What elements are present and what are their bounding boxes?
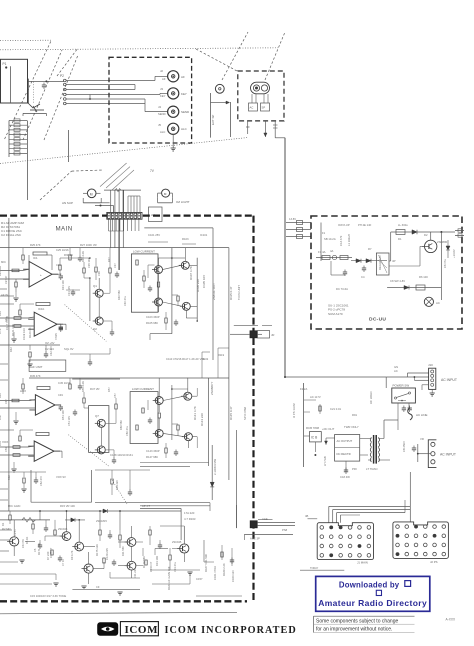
wire boardfeed drops	[329, 506, 411, 522]
wire key jack leads	[252, 94, 268, 103]
transistor Q20	[422, 232, 437, 253]
svg-text:+13.8V: +13.8V	[452, 249, 456, 258]
label dcuu feeds	[289, 217, 296, 221]
resistor R41 feedback	[37, 387, 50, 390]
svg-text:R29 10K: R29 10K	[0, 266, 2, 276]
wire q16	[88, 552, 90, 584]
svg-text:R121 10K: R121 10K	[11, 324, 15, 336]
wire y228	[144, 228, 213, 240]
wire rail low	[0, 510, 181, 512]
jack J2 PHONE	[168, 71, 185, 82]
wire dotted link1	[65, 305, 107, 342]
wire rail top	[0, 247, 229, 249]
wire bus a	[110, 219, 112, 248]
wire q9c	[158, 378, 160, 397]
capacitor C26	[78, 248, 82, 262]
wire base lead	[28, 79, 64, 104]
svg-text:R47 VR: R47 VR	[90, 387, 100, 391]
wire harness diag 1	[40, 171, 72, 200]
wire boardfeed 3	[337, 512, 405, 514]
svg-text:C11 225: C11 225	[133, 568, 137, 578]
cable S-curve	[408, 408, 428, 420]
wire bus e	[171, 248, 173, 334]
svg-text:PH 4E 14F: PH 4E 14F	[358, 223, 372, 227]
wire q1c	[98, 278, 100, 289]
svg-text:C53: C53	[4, 447, 8, 452]
svg-text:Downloaded by: Downloaded by	[339, 581, 400, 590]
svg-text:D102: D102	[202, 357, 209, 361]
wire y570	[300, 567, 344, 570]
wire botmid	[196, 540, 242, 596]
connector J1 block outline	[1, 59, 28, 103]
wire in7	[0, 446, 34, 449]
transformer T1	[366, 435, 384, 471]
label meter M1	[62, 201, 73, 205]
svg-text:LT TRAN: LT TRAN	[366, 467, 377, 471]
label low current upper	[133, 249, 155, 253]
wire strip feeds 2	[128, 196, 140, 213]
svg-text:PS8: PS8	[282, 528, 288, 532]
wire ac drop	[398, 403, 409, 430]
svg-text:17A 220: 17A 220	[184, 511, 195, 515]
svg-text:AF 4.7: AF 4.7	[142, 504, 150, 508]
wire dcuu low rail	[387, 285, 441, 290]
svg-text:Q2: Q2	[93, 327, 97, 331]
label y352	[9, 346, 74, 356]
svg-text:Q7: Q7	[95, 414, 99, 418]
label y480	[7, 475, 66, 486]
svg-text:RY: RY	[368, 247, 372, 251]
svg-text:C21 0.01: C21 0.01	[330, 407, 342, 411]
wire q10c	[187, 378, 189, 393]
label dcuu parts	[328, 304, 349, 316]
svg-text:KEY: KEY	[160, 94, 166, 98]
svg-text:C51 10V: C51 10V	[67, 416, 71, 426]
shield boundary bottom aux	[0, 612, 237, 614]
wire in1	[0, 269, 29, 272]
wire y534	[244, 534, 293, 540]
wire y511 verts	[39, 510, 121, 530]
box strip right	[149, 207, 163, 222]
label strip under	[148, 233, 208, 241]
wire y345	[0, 345, 60, 367]
label sheet number	[446, 618, 456, 622]
wire y570b	[150, 569, 200, 571]
wire bus h	[228, 248, 230, 480]
svg-text:AC: AC	[436, 301, 440, 305]
resistor R2	[249, 103, 258, 111]
wire y518	[305, 514, 317, 519]
wire q78 extra	[84, 408, 116, 464]
wire dcuu feed 2	[286, 228, 311, 232]
resistor R69	[103, 558, 105, 563]
svg-text:2SC945: 2SC945	[58, 527, 68, 531]
resistor R64	[99, 525, 101, 541]
wire bus i	[208, 378, 210, 466]
label low current lower	[132, 387, 154, 391]
capacitor C67	[112, 560, 116, 567]
svg-text:MIC: MIC	[1, 260, 6, 264]
resistor R52	[136, 425, 138, 430]
resistor R42 feedback	[36, 433, 49, 436]
label q12	[93, 284, 97, 331]
svg-text:C163 104: C163 104	[231, 570, 235, 582]
svg-text:R171 10K: R171 10K	[37, 543, 41, 555]
svg-text:P1: P1	[3, 62, 7, 66]
ground g1	[81, 586, 86, 589]
wire q12	[98, 297, 100, 317]
svg-text:AC: AC	[394, 369, 398, 373]
label vbus	[212, 283, 233, 300]
svg-text:ALC: ALC	[160, 130, 165, 134]
svg-text:J3: J3	[160, 87, 163, 91]
svg-text:C105 10V: C105 10V	[202, 275, 206, 288]
wire ch1 gnd	[13, 292, 18, 301]
shield boundary MAIN top	[0, 214, 254, 216]
svg-text:2SB AF OUT: 2SB AF OUT	[212, 283, 216, 300]
wire in6	[0, 407, 35, 409]
shield box jack panel	[109, 57, 192, 143]
switch S1 POWER	[392, 384, 416, 404]
svg-text:POWER SW: POWER SW	[393, 384, 410, 388]
svg-text:D1: D1	[398, 237, 402, 241]
wire j10 gnd	[422, 385, 435, 396]
svg-text:R49: R49	[0, 393, 2, 398]
diode D3	[210, 445, 214, 500]
wire bus j	[236, 430, 238, 528]
svg-text:M: M	[90, 192, 93, 196]
wire vline236	[236, 505, 238, 528]
wire y462	[140, 463, 209, 467]
svg-text:LOW CURRENT: LOW CURRENT	[133, 249, 155, 253]
svg-text:R7 220: R7 220	[46, 551, 50, 560]
ground g4	[187, 572, 192, 575]
svg-text:4A: 4A	[330, 249, 334, 253]
label vbus2	[210, 382, 233, 420]
wire ch2 gnd	[11, 332, 16, 342]
svg-text:C2 FINAL 2SC: C2 FINAL 2SC	[1, 233, 22, 237]
wire strip topL	[95, 205, 114, 213]
rectifier box	[335, 435, 360, 462]
label botrow1	[2, 527, 53, 558]
svg-text:TO PA UNIT: TO PA UNIT	[237, 285, 241, 300]
label blockmid	[31, 365, 43, 369]
meter M2	[158, 189, 173, 203]
svg-text:SQL 9V: SQL 9V	[64, 347, 74, 351]
svg-text:R141 4.7K: R141 4.7K	[193, 406, 197, 420]
svg-text:C62 470: C62 470	[39, 476, 43, 486]
wire jack feed 2	[66, 84, 135, 86]
ground g5	[53, 583, 58, 586]
label ch1	[33, 256, 42, 277]
svg-text:MIC GAIN: MIC GAIN	[8, 504, 20, 508]
svg-text:C5: C5	[33, 548, 37, 552]
label speckB	[45, 341, 55, 351]
svg-text:ALC: ALC	[181, 127, 188, 131]
wire dashed pull 1	[196, 49, 238, 72]
wire bus c	[119, 190, 123, 270]
svg-text:C128 100/10 R131: C128 100/10 R131	[110, 453, 133, 457]
label ch1 out	[56, 263, 71, 296]
svg-text:VOX: VOX	[2, 440, 8, 444]
capacitor C31	[148, 286, 152, 293]
wire ch4 gnd	[11, 462, 16, 472]
svg-text:C18 4W: C18 4W	[340, 475, 350, 479]
capacitor C51	[148, 418, 152, 425]
svg-text:R11 560: R11 560	[121, 546, 125, 556]
svg-text:R31 100: R31 100	[61, 280, 65, 290]
wire jack feed 4	[66, 93, 168, 94]
label micol2	[202, 353, 225, 361]
label relay anno	[378, 255, 382, 270]
fuse F1	[316, 250, 352, 260]
wire y502	[95, 503, 210, 511]
svg-text:OZ LIGHT: OZ LIGHT	[176, 200, 190, 204]
svg-text:R33: R33	[0, 311, 2, 316]
svg-text:C157: C157	[196, 577, 203, 581]
wire q13	[13, 520, 15, 556]
svg-text:R42: R42	[9, 347, 13, 352]
transistor Q9	[153, 397, 164, 405]
transistor Q12	[182, 433, 193, 441]
wire bus d	[122, 219, 124, 248]
capacitor C41	[55, 405, 63, 412]
transistor Q19	[177, 544, 189, 553]
wire xlink2	[0, 344, 60, 346]
svg-text:13.8V: 13.8V	[289, 217, 296, 221]
label downloaded by	[339, 581, 411, 590]
wire q4c	[184, 248, 186, 262]
wire dcuu top rail	[391, 230, 455, 235]
svg-text:C40 47u: C40 47u	[123, 296, 127, 306]
wire boardfeed 1	[329, 505, 411, 507]
svg-text:RCB 7808: RCB 7808	[306, 426, 319, 430]
svg-text:2SC945: 2SC945	[172, 540, 182, 544]
svg-text:TWR ONLY: TWR ONLY	[344, 425, 359, 429]
svg-text:AF: AF	[181, 75, 185, 79]
wire power topline	[304, 382, 387, 384]
wire bb2	[25, 536, 104, 569]
wire in4	[0, 325, 34, 328]
svg-text:R40 560: R40 560	[117, 290, 121, 300]
wire from key jack B	[264, 121, 267, 137]
svg-text:DC-UU: DC-UU	[369, 317, 386, 323]
jack J3 KEY	[168, 88, 187, 99]
connector tab lower	[250, 521, 257, 528]
svg-text:C33: C33	[4, 317, 8, 322]
svg-text:IC101: IC101	[200, 233, 208, 237]
svg-text:AF UNIT: AF UNIT	[31, 365, 43, 369]
svg-text:J4: J4	[158, 105, 161, 109]
svg-text:TODAY: TODAY	[310, 567, 319, 570]
svg-text:R147 68K: R147 68K	[146, 455, 158, 459]
label small square	[376, 590, 381, 595]
svg-text:EXT SP: EXT SP	[211, 115, 215, 125]
label meter M2	[176, 200, 190, 204]
transistor Q5	[152, 298, 163, 306]
svg-text:C103 330P: C103 330P	[146, 315, 160, 319]
label q3456	[189, 266, 206, 292]
transistor Q11	[153, 429, 164, 437]
amp block box upper	[131, 254, 158, 312]
note line 1	[316, 618, 398, 624]
ground jack panel	[171, 134, 176, 151]
resistor R67	[169, 548, 171, 570]
svg-text:GN: GN	[394, 365, 398, 369]
capacitor C52b	[174, 450, 178, 457]
label ch3 top	[30, 374, 100, 391]
wire jack feed 6	[66, 99, 168, 112]
wire q910	[163, 396, 184, 437]
wire q19	[160, 526, 184, 562]
label dc input	[441, 378, 457, 382]
jack J5 ALC	[168, 123, 188, 134]
capacitor C32b	[174, 320, 178, 327]
svg-text:VR: VR	[420, 437, 424, 441]
resistor R38	[83, 262, 85, 278]
wire rect leads	[325, 438, 369, 474]
wire bus g	[212, 240, 214, 360]
wire in8	[0, 454, 34, 457]
svg-text:Amateur Radio Directory: Amateur Radio Directory	[318, 598, 427, 608]
transistor Q7	[95, 419, 106, 427]
wire quad1 net2	[172, 258, 198, 322]
wire dashed chassis diagonal 2	[23, 50, 62, 140]
wire ext-sp left	[211, 93, 231, 138]
capacitor C46	[78, 378, 82, 390]
svg-text:AC INPUT: AC INPUT	[441, 378, 457, 382]
wire bus left	[8, 218, 10, 511]
svg-text:R1: R1	[1, 522, 5, 526]
svg-text:VOX 9V: VOX 9V	[56, 475, 66, 479]
svg-text:OW 8-UP: OW 8-UP	[338, 223, 350, 227]
resistor R70	[145, 560, 147, 565]
label ch3 out	[58, 393, 71, 426]
label ch2	[38, 307, 45, 311]
wire dotted mid guide	[0, 138, 248, 164]
svg-text:R55 2.2K: R55 2.2K	[81, 381, 85, 392]
resistor R3	[261, 103, 270, 111]
label bden2	[70, 546, 177, 589]
wire quad2 net2	[172, 388, 197, 448]
label midrow2	[81, 381, 117, 398]
shield boundary MAIN right	[252, 216, 254, 601]
transistor Q1	[93, 289, 104, 297]
wire dashed chassis diagonal 1	[5, 41, 51, 139]
svg-text:C149 225: C149 225	[105, 548, 109, 560]
wire q17	[131, 526, 133, 578]
svg-text:R45 47K: R45 47K	[30, 374, 41, 378]
svg-text:SB 10-2A: SB 10-2A	[324, 237, 336, 241]
jack J6 EXT-SP	[215, 84, 224, 93]
svg-text:C27 47: C27 47	[4, 275, 8, 284]
resistor R62	[32, 520, 34, 534]
wire in5	[0, 399, 35, 402]
svg-text:C9: C9	[96, 585, 100, 589]
transistor Q17	[125, 538, 136, 547]
wire dcuu mid rail	[351, 259, 387, 263]
wire mid gap row	[59, 257, 91, 274]
label qcol	[117, 290, 127, 306]
svg-text:C13 47u: C13 47u	[173, 562, 177, 572]
transistor Q10	[181, 392, 192, 400]
label quad2 bot	[146, 449, 160, 459]
label hold	[369, 365, 398, 404]
resistor R46	[22, 378, 24, 394]
svg-text:R2 MIC: R2 MIC	[2, 527, 11, 531]
svg-text:C143 330P: C143 330P	[146, 449, 160, 453]
svg-text:R91: R91	[352, 413, 357, 417]
svg-text:R35 2.2K: R35 2.2K	[81, 251, 85, 262]
svg-text:J2 PS: J2 PS	[430, 560, 438, 564]
capacitor C58	[73, 410, 77, 417]
svg-text:AC: AC	[250, 106, 254, 110]
wire dcuu feed 1	[286, 221, 311, 225]
transistor Q3	[152, 266, 163, 274]
wire dotted link2	[68, 435, 109, 467]
resistor R58	[83, 392, 85, 408]
wire mid verts	[202, 348, 229, 378]
capacitor C71	[402, 406, 412, 413]
label bden4	[58, 519, 182, 544]
resistor R66	[149, 526, 151, 545]
transistor Q8	[95, 446, 106, 454]
resistor R53b	[165, 443, 167, 458]
wire fuse drop	[331, 261, 347, 276]
wire y519b	[258, 518, 273, 520]
svg-text:C110 470/16 R117 1.2K AF VOL: C110 470/16 R117 1.2K AF VOL	[166, 357, 206, 361]
svg-text:R36 1K: R36 1K	[64, 253, 73, 257]
svg-text:PRI: PRI	[352, 467, 357, 471]
resistor R28	[69, 248, 71, 260]
svg-text:AC INPUT: AC INPUT	[440, 453, 456, 457]
svg-text:C101 25V: C101 25V	[148, 233, 160, 237]
svg-text:L1 100uH: L1 100uH	[347, 234, 351, 246]
wire power left	[285, 377, 304, 467]
label botrow2	[95, 544, 153, 572]
svg-text:U PS 13.8V: U PS 13.8V	[292, 403, 296, 418]
logo ICOM INCORPORATED	[165, 625, 297, 636]
svg-text:R62: R62	[7, 475, 11, 480]
label ch3 left	[0, 393, 8, 420]
wire bus to power	[275, 138, 285, 377]
label DC-UU	[369, 317, 386, 323]
svg-text:AF: AF	[162, 77, 166, 81]
svg-text:C57: C57	[113, 393, 117, 398]
wire mid gap row2	[66, 258, 97, 296]
op-amp IC1a	[23, 262, 58, 288]
resistor R22	[15, 279, 17, 292]
label dcuu misc	[324, 223, 456, 291]
svg-text:F1: F1	[322, 231, 326, 235]
svg-text:IC1b: IC1b	[38, 307, 45, 311]
wire dcuu vleft	[311, 223, 321, 262]
svg-text:Q1: Q1	[93, 284, 97, 288]
svg-text:R51 100: R51 100	[61, 410, 65, 420]
wire boardfeed up	[405, 472, 410, 513]
svg-text:R107 4.7K: R107 4.7K	[189, 266, 193, 280]
resistor R21 feedback	[29, 252, 52, 270]
svg-text:LL 300u: LL 300u	[398, 223, 408, 227]
shield box DC-UU	[311, 216, 462, 329]
wire dcuu right v	[440, 232, 442, 300]
label q78	[95, 414, 133, 457]
resistor R31	[143, 270, 145, 288]
wire harness hatch	[100, 163, 134, 190]
svg-text:SEND: SEND	[181, 110, 189, 114]
wire bb1	[0, 530, 30, 584]
svg-text:R115 0.47: R115 0.47	[229, 286, 233, 300]
